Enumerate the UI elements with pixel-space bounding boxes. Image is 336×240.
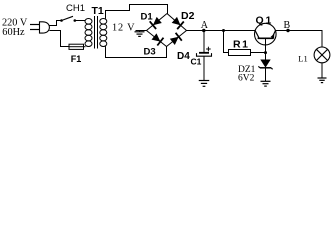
svg-text:R1: R1	[233, 39, 250, 51]
svg-text:12 V: 12 V	[112, 22, 135, 33]
diode D3	[152, 33, 164, 45]
lamp L1	[314, 47, 330, 78]
plug body	[40, 22, 50, 33]
resistor R1	[224, 31, 266, 56]
plug prongs	[30, 25, 40, 30]
wire switch to transformer	[75, 20, 86, 22]
node A	[202, 29, 205, 32]
svg-text:F1: F1	[71, 54, 82, 64]
wire secondary bottom to bridge bottom	[106, 46, 167, 57]
svg-text:D1: D1	[141, 11, 154, 22]
diode D1	[150, 17, 162, 29]
switch CH1	[60, 16, 76, 22]
svg-text:D3: D3	[144, 47, 156, 58]
svg-text:D4: D4	[177, 51, 190, 62]
ground L1	[318, 78, 327, 83]
svg-text:6V2: 6V2	[238, 74, 255, 84]
wire left corner to ground	[136, 30, 147, 32]
bridge diamond edges	[147, 14, 187, 47]
capacitor C1	[197, 31, 212, 81]
svg-text:B: B	[284, 20, 291, 31]
wire fuse to transformer	[84, 46, 86, 48]
svg-text:CH1: CH1	[66, 3, 85, 14]
svg-text:60Hz: 60Hz	[2, 27, 25, 38]
diode D2	[172, 17, 184, 29]
node B	[286, 29, 289, 32]
ground bridge	[135, 32, 145, 37]
transformer T1 primary winding	[85, 19, 92, 47]
svg-text:D2: D2	[181, 10, 195, 22]
svg-text:A: A	[201, 20, 209, 31]
zener DZ1	[258, 53, 272, 82]
transistor Q1	[254, 23, 276, 52]
junction rail to R1	[222, 29, 225, 32]
wire Q1 emitter to node B to lamp	[276, 31, 323, 48]
transformer T1 secondary winding	[100, 19, 107, 47]
wire plug to switch	[49, 21, 61, 26]
ground stem at bridge	[139, 31, 141, 32]
label plus C1	[206, 47, 211, 52]
node base junction	[264, 51, 267, 54]
fuse F1	[69, 44, 85, 49]
svg-text:T1: T1	[92, 5, 104, 17]
transformer T1 core	[95, 16, 98, 49]
svg-text:L1: L1	[298, 54, 307, 64]
wire bridge to node A to Q1 collector	[187, 30, 255, 32]
wire secondary top staircase	[106, 5, 168, 19]
ground C1	[199, 81, 210, 87]
diode D4	[170, 33, 182, 45]
wire plug to fuse	[49, 31, 68, 47]
ground DZ1	[261, 81, 271, 86]
svg-text:C1: C1	[191, 57, 202, 67]
